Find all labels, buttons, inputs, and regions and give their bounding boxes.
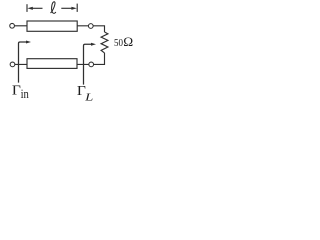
svg-text:Ω: Ω bbox=[123, 35, 133, 49]
svg-text:Γ: Γ bbox=[12, 84, 21, 99]
svg-text:L: L bbox=[84, 93, 94, 102]
svg-text:50: 50 bbox=[114, 37, 123, 49]
svg-text:in: in bbox=[21, 87, 30, 101]
